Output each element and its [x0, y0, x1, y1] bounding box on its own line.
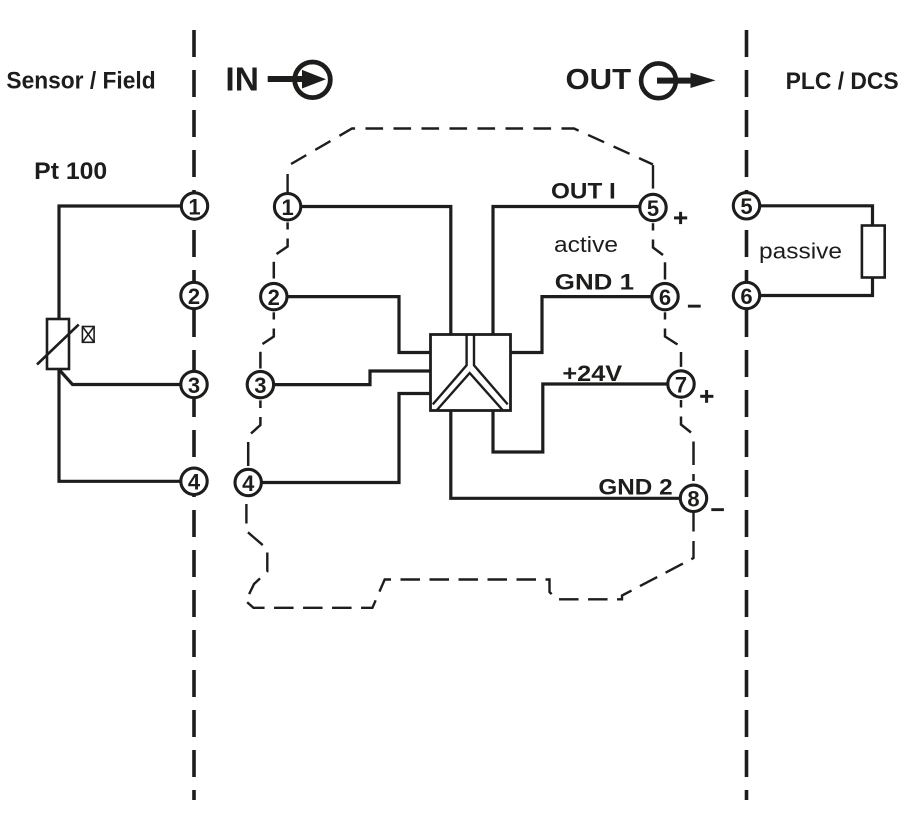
svg-text:Sensor / Field: Sensor / Field [6, 67, 155, 94]
terminal 3 (field) [181, 371, 207, 398]
svg-text:1: 1 [281, 195, 293, 220]
svg-text:5: 5 [740, 194, 752, 219]
module dashed outline between terminals 1-2 [274, 222, 288, 278]
wire module terminal 3 to isolator left [256, 371, 431, 385]
svg-text:3: 3 [254, 373, 266, 398]
left separator dashed line (Sensor/Field boundary) [192, 30, 196, 800]
svg-text:GND 1: GND 1 [555, 269, 634, 294]
wire +24V terminal 7 to isolator bottom [493, 384, 676, 452]
svg-text:5: 5 [647, 196, 659, 221]
module dashed outline (top section) [286, 174, 288, 194]
minus sign at terminal 8 [711, 508, 724, 511]
terminal 4 (module) [235, 469, 261, 496]
svg-text:passive: passive [759, 238, 842, 263]
OUT icon (arrow out of circle) [641, 63, 715, 98]
resistor Pt100 diagonal stroke [37, 325, 79, 365]
svg-text:8: 8 [687, 487, 699, 512]
terminal 6 (module) [652, 283, 678, 310]
wire from Pt100 bottom to field terminal 4 [59, 369, 190, 481]
terminal 7 (module) [668, 371, 694, 398]
terminal 3 (module) [247, 371, 273, 398]
svg-text:OUT: OUT [566, 64, 632, 96]
svg-text:6: 6 [740, 284, 752, 309]
wire module terminal 1 to isolator top [283, 207, 451, 336]
resistor load (passive) [862, 226, 885, 278]
wire isolator top to OUT terminal 5 (OUT I line) [493, 207, 648, 336]
svg-text:OUT I: OUT I [551, 179, 616, 204]
svg-text:7: 7 [675, 372, 687, 397]
resistor Pt100 body [47, 319, 69, 369]
minus sign at terminal 6 [688, 305, 701, 308]
plus sign at terminal 5 [674, 212, 687, 224]
wire from Pt100 bottom to field terminal 3 [59, 370, 190, 385]
terminal 1 (module) [274, 194, 300, 221]
svg-text:+24V: +24V [562, 361, 622, 386]
svg-text:3: 3 [188, 373, 200, 398]
svg-text:Pt 100: Pt 100 [34, 158, 107, 185]
svg-text:1: 1 [188, 194, 200, 219]
terminal 4 (field) [181, 468, 207, 495]
terminal 1 (field) [181, 193, 207, 220]
module dashed outline between terminals 2-3 [260, 312, 273, 368]
right separator dashed line (PLC/DCS boundary) [745, 30, 749, 800]
module dashed outline between terminals 6-7 [665, 312, 681, 367]
wire from field terminal 1 to Pt100 top [59, 206, 190, 319]
svg-text:4: 4 [188, 470, 201, 495]
wire isolator bottom to GND2 terminal 8 [451, 410, 689, 498]
terminal 5 (module) [640, 194, 666, 221]
wire load resistor to PLC terminal 6 [752, 278, 873, 296]
theta glyph box next to Pt100 [82, 327, 94, 343]
module dashed outline between terminals 5-6 [653, 223, 665, 279]
module dashed outline (bottom section with DIN-rail foot) [246, 497, 694, 608]
terminal 5 (PLC) [733, 193, 759, 220]
wire isolator right to GND1 terminal 6 [510, 297, 660, 353]
isolator U1 body [431, 335, 511, 411]
wire module terminal 2 to isolator left [270, 297, 431, 353]
terminal 6 (PLC) [733, 282, 759, 309]
wire PLC terminal 5 to load resistor [752, 206, 873, 226]
svg-text:GND 2: GND 2 [598, 475, 672, 500]
IN icon (arrow into circle) [268, 62, 331, 98]
svg-text:IN: IN [225, 61, 259, 98]
isolator Y separator symbol [433, 335, 508, 411]
svg-text:2: 2 [188, 284, 200, 309]
plus sign at terminal 7 [700, 390, 713, 403]
module dashed outline between terminals 3-4 [248, 400, 260, 466]
terminal 2 (field) [181, 282, 207, 309]
module dashed outline between terminals 7-8 [681, 400, 694, 481]
svg-text:2: 2 [268, 285, 280, 310]
wire module terminal 4 to isolator left [244, 394, 431, 483]
svg-text:PLC / DCS: PLC / DCS [786, 68, 899, 95]
svg-text:6: 6 [659, 285, 671, 310]
svg-text:4: 4 [242, 471, 255, 496]
svg-text:active: active [554, 232, 618, 257]
terminal 8 (module) [680, 485, 706, 512]
terminal 2 (module) [261, 283, 287, 310]
